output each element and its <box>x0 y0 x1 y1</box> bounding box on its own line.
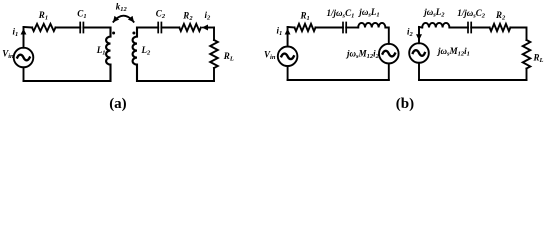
wire C2 to R2 <box>161 27 179 29</box>
svg-text:jωsM12i2: jωsM12i2 <box>345 49 380 61</box>
wire bottom left loop (a) <box>24 80 111 82</box>
svg-text:k12: k12 <box>116 2 128 14</box>
wire right branch bottom (a) <box>213 68 215 81</box>
wire bottom loop2 (b) <box>419 79 527 81</box>
wire left branch loop2 (b) with corner <box>418 27 420 43</box>
wire below dependent source (b loop2) <box>418 63 420 80</box>
inductor jwsL2 <box>422 23 449 28</box>
resistor RL (b) <box>523 40 531 69</box>
svg-text:L2: L2 <box>141 45 152 57</box>
resistor R1 (b) <box>295 24 316 31</box>
wire L2 corner to C2 <box>137 27 158 29</box>
svg-text:L1: L1 <box>96 45 106 57</box>
wire L2 to C2 (b) <box>449 27 468 29</box>
wire C1 to L1 (b) <box>346 27 358 29</box>
resistor R2 <box>179 24 201 31</box>
svg-text:C2: C2 <box>156 9 166 21</box>
wire right branch bottom (b) <box>526 69 528 81</box>
wire left branch top (a): corner to source top <box>23 27 25 48</box>
svg-text:R2: R2 <box>182 11 193 23</box>
polarity dot L2 <box>132 32 135 35</box>
svg-text:C1: C1 <box>77 9 86 21</box>
wire R2 to corner with current arrow i2 (a) <box>207 27 214 29</box>
svg-text:i1: i1 <box>277 26 283 38</box>
current arrow i2 (b) <box>418 29 420 40</box>
svg-text:jωsL2: jωsL2 <box>422 7 445 19</box>
current arrow i1 (a) <box>23 29 25 45</box>
wire R1 to C1 (b) <box>316 27 344 29</box>
svg-text:i2: i2 <box>407 27 414 39</box>
wire bottom right loop (a) <box>137 80 214 82</box>
svg-text:i2: i2 <box>205 10 212 22</box>
coupling arrow k12 <box>113 16 133 22</box>
wire left branch bottom (b) <box>287 66 289 80</box>
wire top: corner to resistor R1 <box>24 26 33 29</box>
inductor L1 <box>106 28 110 82</box>
source Vin (b) <box>278 47 298 67</box>
wire left branch bottom (a) <box>23 67 25 81</box>
capacitor 1/jwsC1 <box>343 23 346 33</box>
svg-text:R1: R1 <box>300 11 310 23</box>
current arrow i1 (b) <box>287 29 289 44</box>
wire C1 to L1 corner <box>83 27 110 29</box>
wire below dependent source (b loop1) <box>388 63 390 80</box>
capacitor C2 <box>158 23 161 33</box>
resistor R1 <box>32 24 56 31</box>
resistor RL (a) <box>210 40 218 68</box>
wire R1 to C1 <box>56 27 81 29</box>
svg-text:RL: RL <box>223 51 234 63</box>
svg-text:jωsL1: jωsL1 <box>357 7 379 19</box>
dependent source jwsM12i1 <box>409 43 429 63</box>
wire C2 to R2 (b) <box>471 27 489 29</box>
wire R2 to right corner (b) <box>510 28 526 41</box>
wire L1 to right corner (b loop1) <box>385 28 388 44</box>
svg-text:1/jωsC2: 1/jωsC2 <box>457 8 486 20</box>
svg-text:R1: R1 <box>38 10 48 22</box>
resistor R2 (b) <box>490 24 511 31</box>
svg-text:Vin: Vin <box>2 48 14 60</box>
svg-text:RL: RL <box>533 53 544 65</box>
wire corner to R1 (b) <box>288 26 295 29</box>
svg-text:jωsM12i1: jωsM12i1 <box>436 46 470 58</box>
svg-text:(b): (b) <box>396 96 414 112</box>
dependent source jwsM12i2 <box>379 44 399 64</box>
wire left branch top (b) <box>287 27 289 47</box>
capacitor C1 <box>80 23 83 33</box>
svg-text:i1: i1 <box>13 27 19 39</box>
wire right branch top (a) <box>213 28 215 41</box>
svg-text:R2: R2 <box>495 10 506 22</box>
polarity dot L1 <box>112 32 115 35</box>
wire corner to L2 (b) <box>419 26 422 29</box>
inductor L2 <box>133 28 137 82</box>
svg-text:(a): (a) <box>109 96 127 112</box>
inductor jwsL1 <box>358 23 385 28</box>
svg-text:Vin: Vin <box>264 50 276 62</box>
svg-text:1/jωsC1: 1/jωsC1 <box>327 8 355 20</box>
capacitor 1/jwsC2 <box>468 23 471 33</box>
wire bottom loop1 (b) <box>288 79 389 81</box>
source Vin (a) <box>14 48 34 68</box>
